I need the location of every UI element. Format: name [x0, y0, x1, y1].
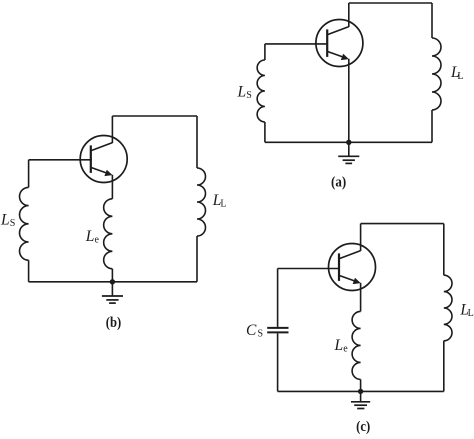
wire: top rail (c): [361, 223, 444, 225]
svg-text:S: S: [10, 218, 16, 229]
wire: top rail (a): [349, 2, 432, 4]
svg-text:S: S: [246, 90, 252, 101]
transistor Q1: [316, 20, 363, 67]
wire: left column lower segment (c): [277, 333, 279, 391]
wire: right column bottom segment (b): [196, 236, 198, 282]
ground (b): [102, 296, 123, 303]
svg-text:e: e: [343, 344, 348, 355]
ground (a): [338, 156, 359, 163]
svg-text:S: S: [258, 329, 264, 340]
wire: emitter lead (b): [111, 175, 113, 199]
wire: base lead from Cs to Q3 base (c): [278, 268, 340, 270]
inductor Ls (b): [20, 187, 29, 260]
label LL (a): [450, 64, 464, 82]
label Cs: [246, 322, 263, 340]
wire: collector lead (a): [348, 3, 350, 27]
wire: collector lead (b): [111, 116, 113, 143]
wire: left column upper segment (c): [277, 269, 279, 327]
wire: right column top segment (c): [443, 224, 445, 276]
wire: ground stub (c): [360, 391, 362, 401]
inductor Ls (a): [257, 60, 265, 122]
wire: bottom rail (b): [29, 281, 197, 283]
node: emitter junction (a): [346, 140, 351, 145]
svg-text:L: L: [457, 71, 463, 82]
label Ls (b): [0, 211, 15, 229]
svg-text:L: L: [237, 84, 247, 101]
label LL (c): [459, 302, 473, 320]
svg-text:e: e: [95, 235, 100, 246]
inductor Le (c): [352, 311, 361, 379]
label Ls (a): [237, 84, 252, 102]
wire: emitter lead (a): [348, 59, 350, 143]
capacitor Cs: [267, 328, 288, 333]
wire: left column top segment (b): [28, 160, 30, 188]
wire: right column top segment (b): [196, 116, 198, 168]
wire: right column bottom segment (a): [431, 110, 433, 142]
svg-text:(b): (b): [106, 315, 121, 331]
wire: emitter bottom segment (b): [111, 269, 113, 282]
wire: left column top segment (a): [264, 44, 266, 60]
wire: emitter lead (c): [360, 283, 362, 312]
wire: base lead from Ls top to Q2 base (b): [29, 159, 92, 161]
wire: left column bottom segment (a): [264, 122, 266, 142]
label Le (b): [85, 228, 100, 246]
svg-text:L: L: [468, 308, 474, 319]
wire: top rail (b): [112, 115, 197, 117]
svg-text:(a): (a): [331, 175, 346, 191]
inductor LL (c): [444, 275, 452, 341]
wire: collector lead (c): [360, 224, 362, 251]
transistor Q2: [80, 136, 127, 183]
inductor Le (b): [104, 199, 113, 269]
wire: bottom rail (c): [278, 390, 444, 392]
inductor LL (a): [432, 38, 441, 110]
svg-text:(c): (c): [356, 419, 370, 435]
wire: emitter bottom segment (c): [360, 379, 362, 391]
node: emitter junction (b): [110, 279, 115, 284]
wire: ground stub (a): [348, 142, 350, 156]
wire: right column bottom segment (c): [443, 341, 445, 392]
svg-text:L: L: [220, 199, 226, 210]
label Le (c): [334, 337, 349, 355]
svg-text:L: L: [85, 228, 95, 245]
wire: right column top segment (a): [431, 3, 433, 38]
node: emitter junction (c): [358, 389, 363, 394]
wire: left column bottom segment (b): [28, 260, 30, 282]
svg-text:L: L: [334, 337, 344, 354]
ground (c): [351, 402, 370, 409]
wire: bottom rail (a): [265, 141, 432, 143]
svg-text:L: L: [0, 211, 10, 228]
inductor LL (b): [197, 168, 206, 236]
label LL (b): [212, 192, 227, 210]
wire: base lead from Ls top to Q1 base (a): [265, 43, 327, 45]
transistor Q3: [329, 244, 376, 291]
svg-text:C: C: [246, 322, 257, 339]
wire: ground stub (b): [111, 282, 113, 296]
